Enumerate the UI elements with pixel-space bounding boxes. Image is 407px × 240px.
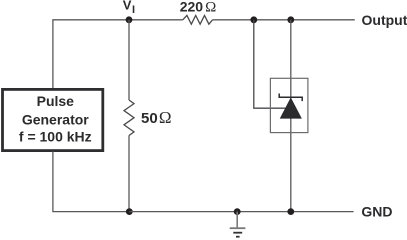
- device U1 outline box: [270, 78, 308, 132]
- wire: left stem from pulse generator bottom to bottom rail: [53, 151, 129, 211]
- svg-text:GND: GND: [361, 203, 392, 219]
- device U1 shunt-reference triangle (anode): [280, 98, 301, 118]
- ground symbol bar 3: [236, 236, 240, 238]
- ground symbol stub: [236, 212, 238, 228]
- wire: 50 ohm branch upper lead: [128, 20, 130, 100]
- svg-text:f = 100 kHz: f = 100 kHz: [19, 129, 92, 145]
- resistor R2 50 ohm (vertical zigzag): [124, 100, 134, 136]
- wire: top rail right segment (resistor to Output): [213, 19, 355, 21]
- junction dot: cathode tap on top rail: [287, 16, 294, 23]
- svg-text:Generator: Generator: [22, 111, 89, 127]
- device U1 cathode bar with zener ticks: [279, 94, 302, 102]
- svg-text:I: I: [132, 4, 135, 16]
- junction dot: ground tap on bottom rail: [234, 208, 241, 215]
- svg-text:Ω: Ω: [205, 0, 216, 16]
- wire: 50 ohm branch lower lead: [128, 136, 130, 212]
- wire: left stem from pulse generator top to top rail: [52, 20, 54, 89]
- wire: top rail left segment (corner to 220 ohm resistor): [52, 19, 183, 21]
- node VI junction dot: [126, 16, 133, 23]
- svg-text:V: V: [123, 0, 132, 12]
- pulse generator box: [3, 89, 103, 150]
- svg-text:220: 220: [180, 0, 204, 14]
- resistor R1 220 ohm (horizontal zigzag): [183, 15, 213, 24]
- wire: reference lead from top rail into device: [254, 20, 287, 108]
- junction dot: reference tap on top rail: [250, 16, 257, 23]
- svg-text:50: 50: [141, 110, 158, 127]
- svg-text:Pulse: Pulse: [37, 93, 75, 109]
- svg-text:Output: Output: [362, 12, 407, 28]
- ground symbol bar 1: [230, 227, 246, 229]
- svg-text:Ω: Ω: [159, 108, 172, 127]
- ground symbol bar 2: [233, 232, 242, 234]
- junction dot: anode to bottom rail: [287, 208, 294, 215]
- junction dot: 50 ohm to bottom rail: [126, 208, 133, 215]
- wire: cathode-anode vertical through device to bottom rail: [290, 20, 292, 212]
- wire: bottom rail: [129, 211, 353, 213]
